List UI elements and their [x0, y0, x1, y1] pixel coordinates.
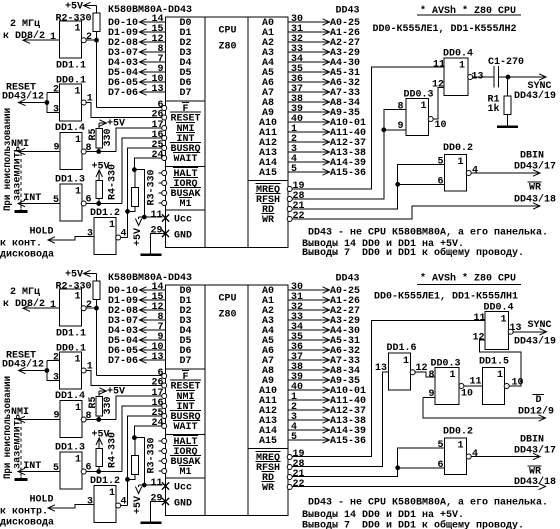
CPU label [219, 25, 237, 53]
svg-text:GND: GND [174, 498, 192, 510]
ground (unused inputs) [15, 210, 28, 213]
svg-text:DD0.2: DD0.2 [443, 142, 473, 154]
svg-text:1: 1 [497, 369, 503, 381]
CPU pin 3 address A13 wire to DD43 [259, 411, 366, 427]
CPU pin IORQ (unconnected stub) [159, 446, 199, 459]
node INT input [18, 460, 60, 475]
resistor R4-330 (INT pull-up) [92, 429, 119, 472]
power +5V (Ucc feed) [132, 485, 162, 514]
CPU pin 26 RESET (active low) [152, 109, 202, 125]
svg-text:1: 1 [75, 134, 81, 146]
svg-text:9: 9 [398, 120, 404, 132]
CPU pin 21 RD (active low) [262, 200, 305, 216]
svg-text:+5V: +5V [65, 269, 84, 281]
inverter DD1.2 (HOLD to BUSRQ) [87, 207, 127, 255]
svg-text:DD1.1: DD1.1 [56, 60, 86, 72]
svg-text:WR: WR [529, 182, 542, 194]
svg-text:M1: M1 [180, 198, 192, 210]
wire MREQ to DD0.4 pin 11 [292, 67, 444, 189]
wire DD1.3 output to CPU pin 16 (INT) [86, 406, 162, 473]
CPU pin 5 address A15 wire to DD43 [259, 163, 366, 179]
CPU pin 17 NMI (active low) [152, 119, 196, 135]
CPU pin 22 WR (active low) [262, 210, 305, 226]
wire RESET to DD0.1 pins 2 and 3 [47, 360, 60, 380]
CPU socket block K580BM80A-DD43 outline [166, 285, 289, 516]
CPU pin 35 address A5 wire to DD43 [262, 331, 360, 347]
svg-text:CPU: CPU [219, 293, 237, 305]
label chip types DD0/DD1 (lower) [374, 291, 518, 303]
CPU pin 24 WAIT (active low) [152, 149, 199, 165]
capacitor C1-270 [472, 56, 524, 88]
svg-text:1: 1 [109, 219, 115, 231]
wire clock node to CPU pin 6 (F) [97, 40, 163, 107]
svg-text:4: 4 [472, 165, 478, 177]
node D output DD12/9 (to DD0.3 pin 9) [423, 394, 554, 421]
wire DD1.1 output to clock node [86, 38, 99, 42]
svg-text:11: 11 [474, 312, 486, 324]
CPU pin 31 address A1 wire to DD43 [262, 23, 360, 39]
CPU pin 29 GND (cut pin) [151, 225, 193, 242]
note DD43 socket line 1 (lower) [308, 497, 548, 509]
svg-text:1: 1 [75, 23, 81, 35]
resistor R5-330 (NMI pull-up) [87, 120, 114, 152]
resistor R5-330 (NMI pull-up) [87, 388, 114, 420]
CPU pin 5 address A15 wire to DD43 [259, 431, 366, 447]
CPU pin 4 address A14 wire to DD43 [259, 153, 366, 169]
svg-text:Z80: Z80 [219, 41, 237, 53]
node RESET input (DD43/12) [2, 350, 49, 374]
svg-text:2: 2 [53, 352, 59, 364]
svg-text:1: 1 [75, 354, 81, 366]
note power pins line 2 (lower) [302, 509, 464, 521]
node clock input 2 MHz (to DD8/2) [3, 286, 60, 311]
svg-text:+5V: +5V [132, 227, 144, 246]
inverter DD1.1 (clock buffer) [50, 289, 92, 340]
label DD43 column header (lower) [336, 273, 360, 285]
svg-text:5: 5 [438, 439, 444, 451]
svg-text:M1: M1 [180, 466, 192, 478]
wire dashed ground option [20, 421, 22, 479]
node HOLD input (from disk controller) [0, 494, 94, 529]
svg-text:R4-330: R4-330 [107, 164, 119, 200]
CPU pin 17 NMI (active low) [152, 387, 196, 403]
CPU pin 6 F (active low) [158, 99, 190, 115]
svg-text:1k: 1k [488, 103, 500, 115]
wire DD0.3 output to DD1.5 pin 11 (lower) [464, 385, 483, 387]
inverter DD1.4 (NMI) [54, 390, 92, 438]
svg-text:2: 2 [86, 299, 92, 311]
resistor R3-330 (BUSRQ pull-up) [128, 170, 158, 212]
node DBIN output DD43/17 (lower) [471, 434, 556, 460]
ground (CPU GND) [141, 521, 162, 524]
resistor R2-330 (clock pull-up) [56, 6, 101, 41]
svg-text:3: 3 [87, 228, 93, 240]
CPU pin 38 address A8 wire to DD43 [262, 93, 360, 109]
CPU pin 33 address A3 wire to DD43 [262, 311, 360, 327]
svg-text:1: 1 [450, 369, 456, 381]
svg-text:29: 29 [151, 493, 163, 505]
CPU pin 9 data D5 wire [108, 331, 192, 347]
svg-text:1: 1 [501, 314, 507, 326]
svg-text:3: 3 [53, 372, 59, 384]
svg-text:5: 5 [291, 431, 297, 443]
wire DD1.5 output to DD0.4 pin 12 (lower) [480, 340, 521, 386]
label chip types DD0/DD1 [373, 23, 517, 35]
wire DD1.3 output to CPU pin 16 (INT) [86, 138, 162, 205]
gate DD0.2 (NOR, lower) [438, 426, 479, 475]
note 'заземлить' (vertical) [12, 414, 24, 469]
CPU pin 33 address A3 wire to DD43 [262, 43, 360, 59]
svg-text:2 МГц: 2 МГц [10, 18, 41, 30]
CPU pin 37 address A7 wire to DD43 [262, 351, 360, 367]
svg-text:INT: INT [23, 460, 41, 472]
CPU pin 24 WAIT (active low) [152, 417, 199, 433]
ground (unused inputs) [15, 478, 28, 481]
CPU pin 29 GND (cut pin) [151, 493, 193, 510]
svg-text:A15-36: A15-36 [330, 167, 366, 179]
CPU pin 26 RESET (active low) [152, 377, 202, 393]
svg-text:DD43/19: DD43/19 [514, 336, 556, 348]
svg-text:5: 5 [291, 163, 297, 175]
wire GND pin to ground [151, 502, 166, 522]
svg-text:DD1.1: DD1.1 [56, 328, 86, 340]
svg-text:WR: WR [262, 482, 275, 494]
power +5V label at R5 [107, 118, 126, 130]
svg-text:Ucc: Ucc [174, 482, 192, 494]
svg-text:Выводы 7 DD0 и DD1 к общему п: Выводы 7 DD0 и DD1 к общему проводу. [302, 519, 524, 529]
svg-text:A15-36: A15-36 [330, 435, 366, 447]
svg-text:DD0-К555ЛЕ1, DD1-К555ЛН2: DD0-К555ЛЕ1, DD1-К555ЛН2 [373, 23, 517, 35]
CPU pin M1 (unconnected stub) [159, 466, 193, 479]
resistor R1 1k [488, 77, 512, 127]
CPU pin 39 address A9 wire to DD43 [262, 371, 360, 387]
svg-text:4: 4 [472, 448, 478, 460]
svg-text:1: 1 [50, 31, 56, 43]
CPU pin HALT (unconnected stub) [159, 436, 199, 449]
wire RD to DD0.2 pins 5 and 6 (lower) [292, 448, 445, 477]
svg-text:DD43 - не CPU К580ВМ80А, а его: DD43 - не CPU К580ВМ80А, а его панелька. [308, 227, 548, 239]
wire DD0.1 output to CPU pin 26 (RESET) [86, 371, 162, 386]
note DD43 socket line 1 [308, 227, 548, 239]
svg-text:заземлить: заземлить [12, 414, 24, 469]
CPU pin 16 INT (active low) [152, 129, 196, 145]
svg-text:R4-330: R4-330 [107, 432, 119, 468]
gate DD0.1 (NOR as inverter, RESET) [53, 75, 93, 122]
svg-text:1: 1 [109, 487, 115, 499]
svg-text:1: 1 [50, 299, 56, 311]
resistor R2-330 (clock pull-up) [56, 274, 101, 309]
CPU pin 11 Ucc (cut pin) [151, 209, 193, 226]
svg-text:DD43 - не CPU К580ВМ80А, а его: DD43 - не CPU К580ВМ80А, а его панелька. [308, 497, 548, 509]
node SYNC output DD43/19 [506, 74, 556, 102]
CPU pin 40 address A10 wire to DD43 [259, 381, 366, 397]
svg-text:D: D [536, 394, 542, 406]
power +5V (Ucc feed) [132, 217, 162, 246]
svg-text:К580ВМ80А-DD43: К580ВМ80А-DD43 [108, 272, 192, 284]
node DBIN output DD43/17 [471, 150, 556, 177]
CPU pin 36 address A6 wire to DD43 [262, 73, 360, 89]
CPU pin 13 data D7 wire [108, 83, 192, 99]
CPU pin 1 address A11 wire to DD43 [259, 123, 366, 139]
svg-text:D7-06: D7-06 [108, 87, 138, 99]
CPU pin 8 data D3 wire [108, 43, 192, 59]
svg-text:9: 9 [429, 388, 435, 400]
note power pins line 2 [302, 238, 464, 250]
CPU pin 34 address A4 wire to DD43 [262, 321, 360, 337]
CPU pin 7 data D4 wire [108, 53, 192, 69]
CPU pin 19 MREQ (active low) [256, 448, 305, 464]
wire RFSH to DD1.6 pin 13 (lower) [292, 372, 389, 466]
svg-text:DD1.6: DD1.6 [387, 342, 417, 354]
CPU pin 22 WR (active low) [262, 478, 305, 494]
svg-text:5: 5 [438, 156, 444, 168]
svg-text:R3-330: R3-330 [146, 170, 158, 206]
CPU pin 12 data D2 wire [108, 301, 192, 317]
CPU pin 15 data D1 wire [108, 23, 192, 39]
title * AVSh * Z80 CPU (lower) [417, 273, 521, 285]
svg-text:6: 6 [438, 176, 444, 188]
gate DD0.2 (NOR) [438, 142, 479, 191]
wire GND pin to ground [151, 234, 166, 254]
svg-text:13: 13 [152, 83, 164, 95]
svg-text:D7-06: D7-06 [108, 355, 138, 367]
note 'заземлить' (vertical) [12, 146, 24, 201]
svg-text:DD1.5: DD1.5 [479, 356, 509, 368]
gate DD0.4 (NOR, lower) [473, 302, 522, 350]
svg-text:HOLD: HOLD [30, 226, 54, 238]
svg-text:A15: A15 [259, 167, 277, 179]
CPU pin 14 data D0 wire [108, 281, 192, 297]
svg-text:HOLD: HOLD [30, 494, 54, 506]
svg-text:* AVSh * Z80 CPU: * AVSh * Z80 CPU [420, 273, 516, 285]
svg-text:DD43/17: DD43/17 [514, 161, 556, 173]
svg-text:330: 330 [102, 397, 114, 415]
wire DD1.4 output to CPU pin 17 (NMI) [86, 128, 162, 153]
svg-text:R3-330: R3-330 [146, 438, 158, 474]
svg-text:DD43: DD43 [336, 273, 360, 285]
title * AVSh * Z80 CPU [417, 5, 521, 17]
CPU pin 40 address A10 wire to DD43 [259, 113, 366, 129]
node HOLD input (from disk controller) [0, 226, 94, 261]
wire RFSH to DD0.3 pins 8 and 9 [292, 109, 406, 199]
node SYNC output DD43/19 (lower) [513, 319, 556, 348]
svg-text:24: 24 [152, 149, 164, 161]
gate DD1.5 (inverter) [470, 356, 524, 405]
CPU pin HALT (unconnected stub) [159, 168, 199, 181]
svg-text:11: 11 [151, 209, 163, 221]
svg-text:+5V: +5V [65, 1, 84, 13]
svg-text:DD43/18: DD43/18 [514, 194, 556, 206]
power +5V label at R5 [107, 386, 126, 398]
svg-text:К580ВМ80А-DD43: К580ВМ80А-DD43 [108, 4, 192, 16]
wire dashed ground option [20, 153, 22, 211]
svg-text:1: 1 [458, 440, 464, 452]
CPU pin 1 address A11 wire to DD43 [259, 391, 366, 407]
svg-text:22: 22 [293, 478, 305, 490]
title K580BM80A-DD43 (upper) [108, 4, 192, 16]
svg-text:+5V: +5V [132, 495, 144, 514]
CPU pin 15 data D1 wire [108, 291, 192, 307]
CPU pin 13 data D7 wire [108, 351, 192, 367]
CPU pin 30 address A0 wire to DD43 [262, 13, 360, 29]
CPU pin 11 Ucc (cut pin) [151, 477, 193, 494]
node INT input [18, 192, 60, 207]
resistor R4-330 (INT pull-up) [92, 161, 119, 204]
CPU pin M1 (unconnected stub) [159, 198, 193, 211]
resistor R3-330 (BUSRQ pull-up) [128, 438, 158, 480]
wire RESET to DD0.1 pins 2 and 3 [47, 92, 60, 112]
gate DD0.3 (NOR) [398, 89, 447, 136]
CPU pin 32 address A2 wire to DD43 [262, 33, 360, 49]
svg-text:22: 22 [293, 210, 305, 222]
svg-text:DD12/9: DD12/9 [518, 406, 554, 418]
svg-text:заземлить: заземлить [12, 146, 24, 201]
gate DD0.4 (NOR) [432, 48, 484, 96]
node NMI input [11, 406, 60, 423]
svg-text:8: 8 [429, 369, 435, 381]
node WR output DD43/18 (lower) [292, 466, 556, 490]
note ground pins line 3 (lower) [302, 519, 524, 529]
CPU pin 21 RD (active low) [262, 468, 305, 484]
inverter DD1.1 (clock buffer) [50, 21, 92, 72]
svg-text:R5: R5 [87, 397, 99, 409]
CPU pin 39 address A9 wire to DD43 [262, 103, 360, 119]
svg-text:3: 3 [87, 496, 93, 508]
CPU pin 9 data D5 wire [108, 63, 192, 79]
svg-text:DD0.2: DD0.2 [443, 426, 473, 438]
svg-text:DD43: DD43 [336, 5, 360, 17]
svg-text:дисковода: дисковода [0, 249, 54, 261]
svg-text:Выводы 7 DD0 и DD1 к общему п: Выводы 7 DD0 и DD1 к общему проводу. [302, 246, 524, 259]
wire DD0.3 output to DD0.4 pin 12 [433, 88, 444, 119]
CPU pin 16 INT (active low) [152, 397, 196, 413]
svg-text:11: 11 [433, 59, 445, 71]
label DD43 column header [336, 5, 360, 17]
svg-text:10: 10 [461, 388, 473, 400]
wire DD0.1 output to CPU pin 26 (RESET) [86, 103, 162, 118]
svg-text:R5: R5 [87, 129, 99, 141]
CPU pin BUSAK (unconnected stub) [159, 188, 202, 201]
svg-text:12: 12 [432, 79, 444, 91]
svg-text:11: 11 [151, 477, 163, 489]
gate DD1.6 (inverter) [375, 342, 428, 390]
svg-text:WAIT: WAIT [174, 153, 198, 165]
CPU pin 14 data D0 wire [108, 13, 192, 29]
CPU pin BUSAK (unconnected stub) [159, 456, 202, 469]
node clock input 2 MHz (to DD8/2) [3, 18, 60, 43]
svg-text:1: 1 [75, 186, 81, 198]
note 'При неиспользовании' (vertical) [2, 108, 14, 211]
wire clock node to CPU pin 6 (F) [97, 308, 163, 375]
svg-text:Z80: Z80 [219, 309, 237, 321]
svg-text:8: 8 [398, 101, 404, 113]
wire WAIT tie to +5V [133, 158, 163, 219]
note ground pins line 3 [302, 246, 524, 259]
ground (R1) [497, 126, 518, 129]
svg-text:CPU: CPU [219, 25, 237, 37]
svg-text:дисковода: дисковода [0, 517, 54, 529]
svg-text:1: 1 [403, 355, 409, 367]
CPU pin 34 address A4 wire to DD43 [262, 53, 360, 69]
svg-text:DD43/18: DD43/18 [514, 476, 556, 488]
svg-text:D7: D7 [180, 87, 192, 99]
CPU pin 12 data D2 wire [108, 33, 192, 49]
svg-text:3: 3 [53, 104, 59, 116]
inverter DD1.2 (HOLD to BUSRQ) [87, 475, 127, 523]
svg-text:10: 10 [435, 119, 447, 131]
wire DD1.2 output to CPU pin 25 (BUSRQ) [120, 148, 162, 238]
svg-text:13: 13 [152, 351, 164, 363]
CPU pin 32 address A2 wire to DD43 [262, 301, 360, 317]
svg-text:10: 10 [512, 377, 524, 389]
wire DD1.4 output to CPU pin 17 (NMI) [86, 396, 162, 421]
CPU pin 37 address A7 wire to DD43 [262, 83, 360, 99]
CPU pin 30 address A0 wire to DD43 [262, 281, 360, 297]
svg-text:INT: INT [23, 192, 41, 204]
wire WAIT tie to +5V [133, 426, 163, 487]
title K580BM80A-DD43 (lower) [108, 272, 192, 284]
svg-text:DD43/17: DD43/17 [514, 445, 556, 457]
svg-text:1: 1 [75, 454, 81, 466]
CPU socket block K580BM80A-DD43 outline [166, 17, 289, 248]
svg-text:29: 29 [151, 225, 163, 237]
CPU pin 2 address A12 wire to DD43 [259, 133, 366, 149]
inverter DD1.4 (NMI) [54, 122, 92, 170]
CPU pin 2 address A12 wire to DD43 [259, 401, 366, 417]
CPU pin 10 data D6 wire [108, 341, 192, 357]
power +5V (clock pull-up feed) [65, 269, 97, 281]
wire DD1.1 output to clock node [86, 306, 99, 310]
svg-text:WAIT: WAIT [174, 421, 198, 433]
svg-text:2: 2 [53, 84, 59, 96]
svg-text:D7: D7 [180, 355, 192, 367]
node RESET input (DD43/12) [2, 82, 49, 106]
svg-text:1: 1 [421, 100, 427, 112]
svg-text:12: 12 [473, 332, 485, 344]
svg-text:Ucc: Ucc [174, 214, 192, 226]
svg-text:6: 6 [438, 459, 444, 471]
CPU pin 36 address A6 wire to DD43 [262, 341, 360, 357]
svg-text:1: 1 [458, 156, 464, 168]
CPU pin 31 address A1 wire to DD43 [262, 291, 360, 307]
CPU pin 6 F (active low) [158, 367, 190, 383]
CPU pin 38 address A8 wire to DD43 [262, 361, 360, 377]
CPU pin IORQ (unconnected stub) [159, 178, 199, 191]
power +5V (clock pull-up feed) [65, 1, 97, 13]
svg-text:A15: A15 [259, 435, 277, 447]
ground (CPU GND) [141, 253, 162, 256]
CPU pin 19 MREQ (active low) [256, 180, 305, 196]
CPU label [219, 293, 237, 321]
CPU pin 28 RFSH (active low) [256, 458, 305, 474]
svg-text:330: 330 [102, 129, 114, 147]
svg-text:R2-330: R2-330 [56, 12, 92, 24]
wire DD1.2 output to CPU pin 25 (BUSRQ) [120, 416, 162, 506]
svg-text:11: 11 [470, 376, 482, 388]
CPU pin 10 data D6 wire [108, 73, 192, 89]
inverter DD1.3 (INT) [53, 442, 92, 490]
wire MREQ to DD0.4 pin 11 (lower) [292, 321, 485, 457]
svg-text:2: 2 [86, 31, 92, 43]
wire DD1.6 output to DD0.3 pin 8 (lower) [415, 372, 435, 377]
CPU pin 8 data D3 wire [108, 311, 192, 327]
gate DD0.3 (NOR, lower) [429, 358, 474, 405]
wire RD to DD0.2 pins 5 and 6 [292, 164, 445, 209]
note 'При неиспользовании' (vertical) [2, 376, 14, 479]
CPU pin 28 RFSH (active low) [256, 190, 305, 206]
svg-text:24: 24 [152, 417, 164, 429]
svg-text:9: 9 [54, 410, 60, 422]
